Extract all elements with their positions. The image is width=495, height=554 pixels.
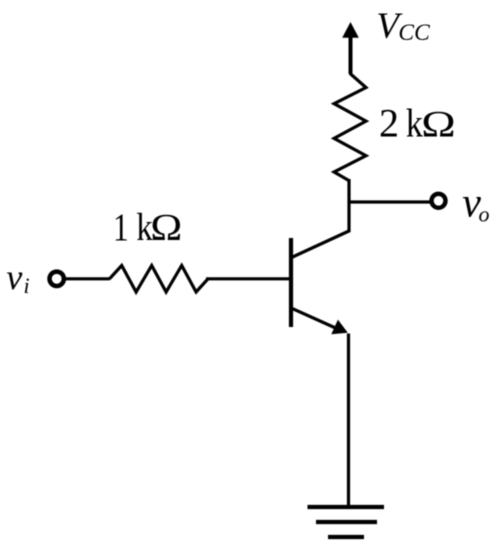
svg-text:Ω: Ω [150,206,182,248]
svg-text:v: v [6,257,22,297]
svg-text:1: 1 [113,206,129,249]
svg-text:i: i [24,273,30,298]
svg-text:Ω: Ω [421,105,455,146]
svg-text:2: 2 [379,101,399,146]
svg-text:CC: CC [398,20,430,46]
svg-text:o: o [479,202,490,227]
